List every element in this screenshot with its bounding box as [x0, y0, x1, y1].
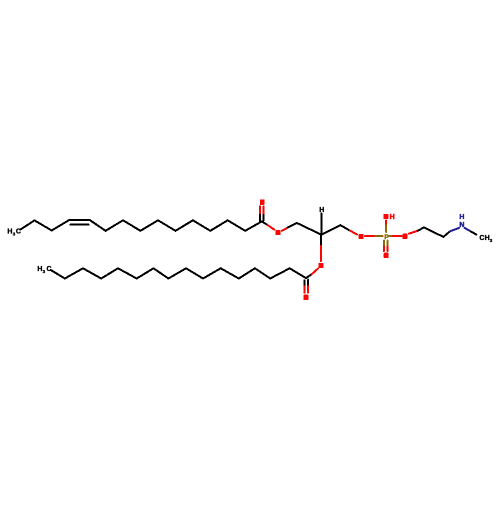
bond P to right O — [388, 235, 393, 237]
ester O (sn-2) — [319, 263, 324, 268]
carbonyl C=O double bond (top ester) — [260, 206, 264, 215]
P=O double bond — [384, 241, 388, 247]
carbonyl O (bottom ester) — [304, 295, 309, 300]
bond right CH2 to phosphoester O — [340, 225, 349, 230]
top acyl chain zigzag C15:1 — [20, 220, 262, 231]
svg-text:H: H — [319, 207, 324, 214]
bond N to methyl — [465, 228, 471, 232]
bond O to P — [365, 235, 375, 237]
bond central C to right CH2 — [321, 225, 340, 235]
carbonyl O (top ester) — [260, 200, 265, 205]
bond right O to ethanolamine CH2 — [409, 231, 418, 234]
svg-text:H: H — [459, 214, 464, 221]
bond P up to OH — [385, 220, 387, 225]
bond bottom carbonyl C to ester O — [306, 274, 312, 278]
carbonyl C=O double bond (bottom ester) — [305, 280, 309, 287]
ethanolamine CH2-CH2 bond — [424, 227, 443, 237]
svg-text:H: H — [390, 214, 395, 221]
svg-text:H: H — [7, 229, 12, 236]
top acyl chain H3C label — [7, 229, 21, 237]
svg-text:N: N — [459, 222, 464, 229]
P=O oxygen — [384, 253, 389, 258]
phosphoester O left — [359, 234, 364, 239]
bond central C down to ester O (sn-2) — [320, 235, 322, 246]
bond glycerol CH2 to central C — [297, 223, 322, 235]
bottom acyl chain zigzag C16:0 — [51, 268, 306, 278]
ester O (sn-1) — [276, 230, 281, 235]
bond ester O to glycerol CH2 — [282, 228, 288, 231]
bottom acyl chain H3C label — [37, 266, 51, 274]
cis C=C double bond inner line — [70, 224, 88, 226]
OH label on P — [384, 214, 389, 219]
phosphoester O right — [403, 234, 408, 239]
N-methyl CH3 label — [479, 235, 492, 243]
bond CH2 to N — [443, 231, 449, 237]
svg-text:P: P — [384, 234, 389, 241]
bond carbonyl C to ester O — [262, 221, 268, 225]
central C-H bond — [320, 213, 322, 234]
